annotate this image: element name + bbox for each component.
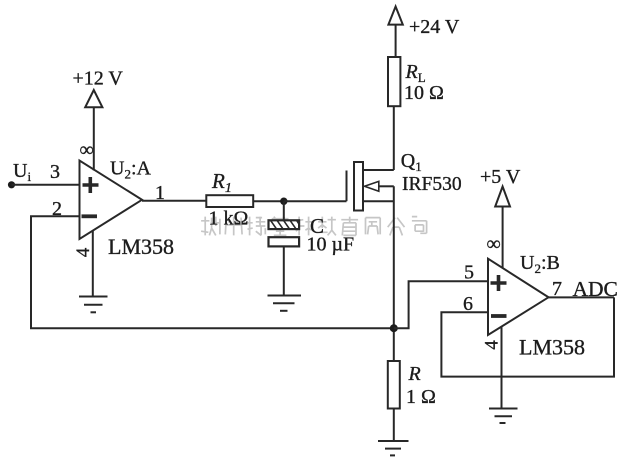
wire feedback U2:B — [441, 297, 614, 376]
power symbol +24 V — [388, 7, 402, 58]
svg-text:R: R — [408, 363, 421, 385]
op-amp U2:B — [488, 259, 549, 335]
svg-text:∞: ∞ — [80, 139, 94, 161]
wire pin 2 feedback — [31, 216, 394, 328]
svg-text:10 µF: 10 µF — [307, 234, 355, 256]
ground (C) — [268, 296, 302, 311]
op-amp U2:A — [80, 161, 143, 240]
ground (U2:B) — [489, 409, 518, 424]
wire gate — [284, 200, 347, 202]
wire output pin 1 — [142, 200, 206, 202]
wire R1 to node — [253, 200, 284, 202]
svg-text:1 Ω: 1 Ω — [406, 386, 436, 408]
wire output pin 7 — [549, 296, 615, 298]
node source/R/feedback junction — [390, 324, 398, 332]
ground (U2:A) — [79, 297, 108, 313]
svg-text:1 kΩ: 1 kΩ — [209, 208, 249, 230]
wire drain — [393, 106, 395, 170]
svg-text:IRF530: IRF530 — [402, 174, 462, 195]
node R1/C/gate junction — [280, 198, 287, 205]
wire pin 5 — [394, 281, 488, 328]
node Ui input — [8, 181, 15, 188]
svg-text:4: 4 — [481, 340, 502, 350]
svg-text:∞: ∞ — [487, 233, 501, 255]
resistor R — [388, 361, 400, 409]
capacitor C — [269, 201, 300, 295]
power symbol +5 V — [495, 187, 510, 269]
power symbol +12 V — [85, 90, 102, 171]
svg-text:LM358: LM358 — [519, 335, 585, 360]
wire pin 4 (U2:A) — [92, 231, 94, 297]
wire R to ground — [393, 409, 395, 442]
svg-text:3: 3 — [50, 161, 60, 183]
svg-text:10 Ω: 10 Ω — [404, 82, 444, 104]
svg-text:LM358: LM358 — [108, 234, 174, 259]
resistor RL — [388, 57, 400, 106]
wire source to node — [393, 186, 395, 361]
svg-text:5: 5 — [464, 262, 474, 284]
wire pin 3 input — [12, 184, 80, 186]
svg-text:4: 4 — [73, 247, 94, 257]
ground (R) — [378, 441, 409, 455]
resistor R1 — [206, 195, 253, 207]
wire pin 4 (U2:B) — [501, 327, 503, 409]
svg-text:+5 V: +5 V — [480, 166, 521, 188]
svg-text:+24 V: +24 V — [409, 16, 460, 38]
transistor Q1 — [347, 162, 394, 211]
svg-text:U2:A: U2:A — [110, 158, 152, 182]
svg-text:+12 V: +12 V — [73, 68, 124, 90]
